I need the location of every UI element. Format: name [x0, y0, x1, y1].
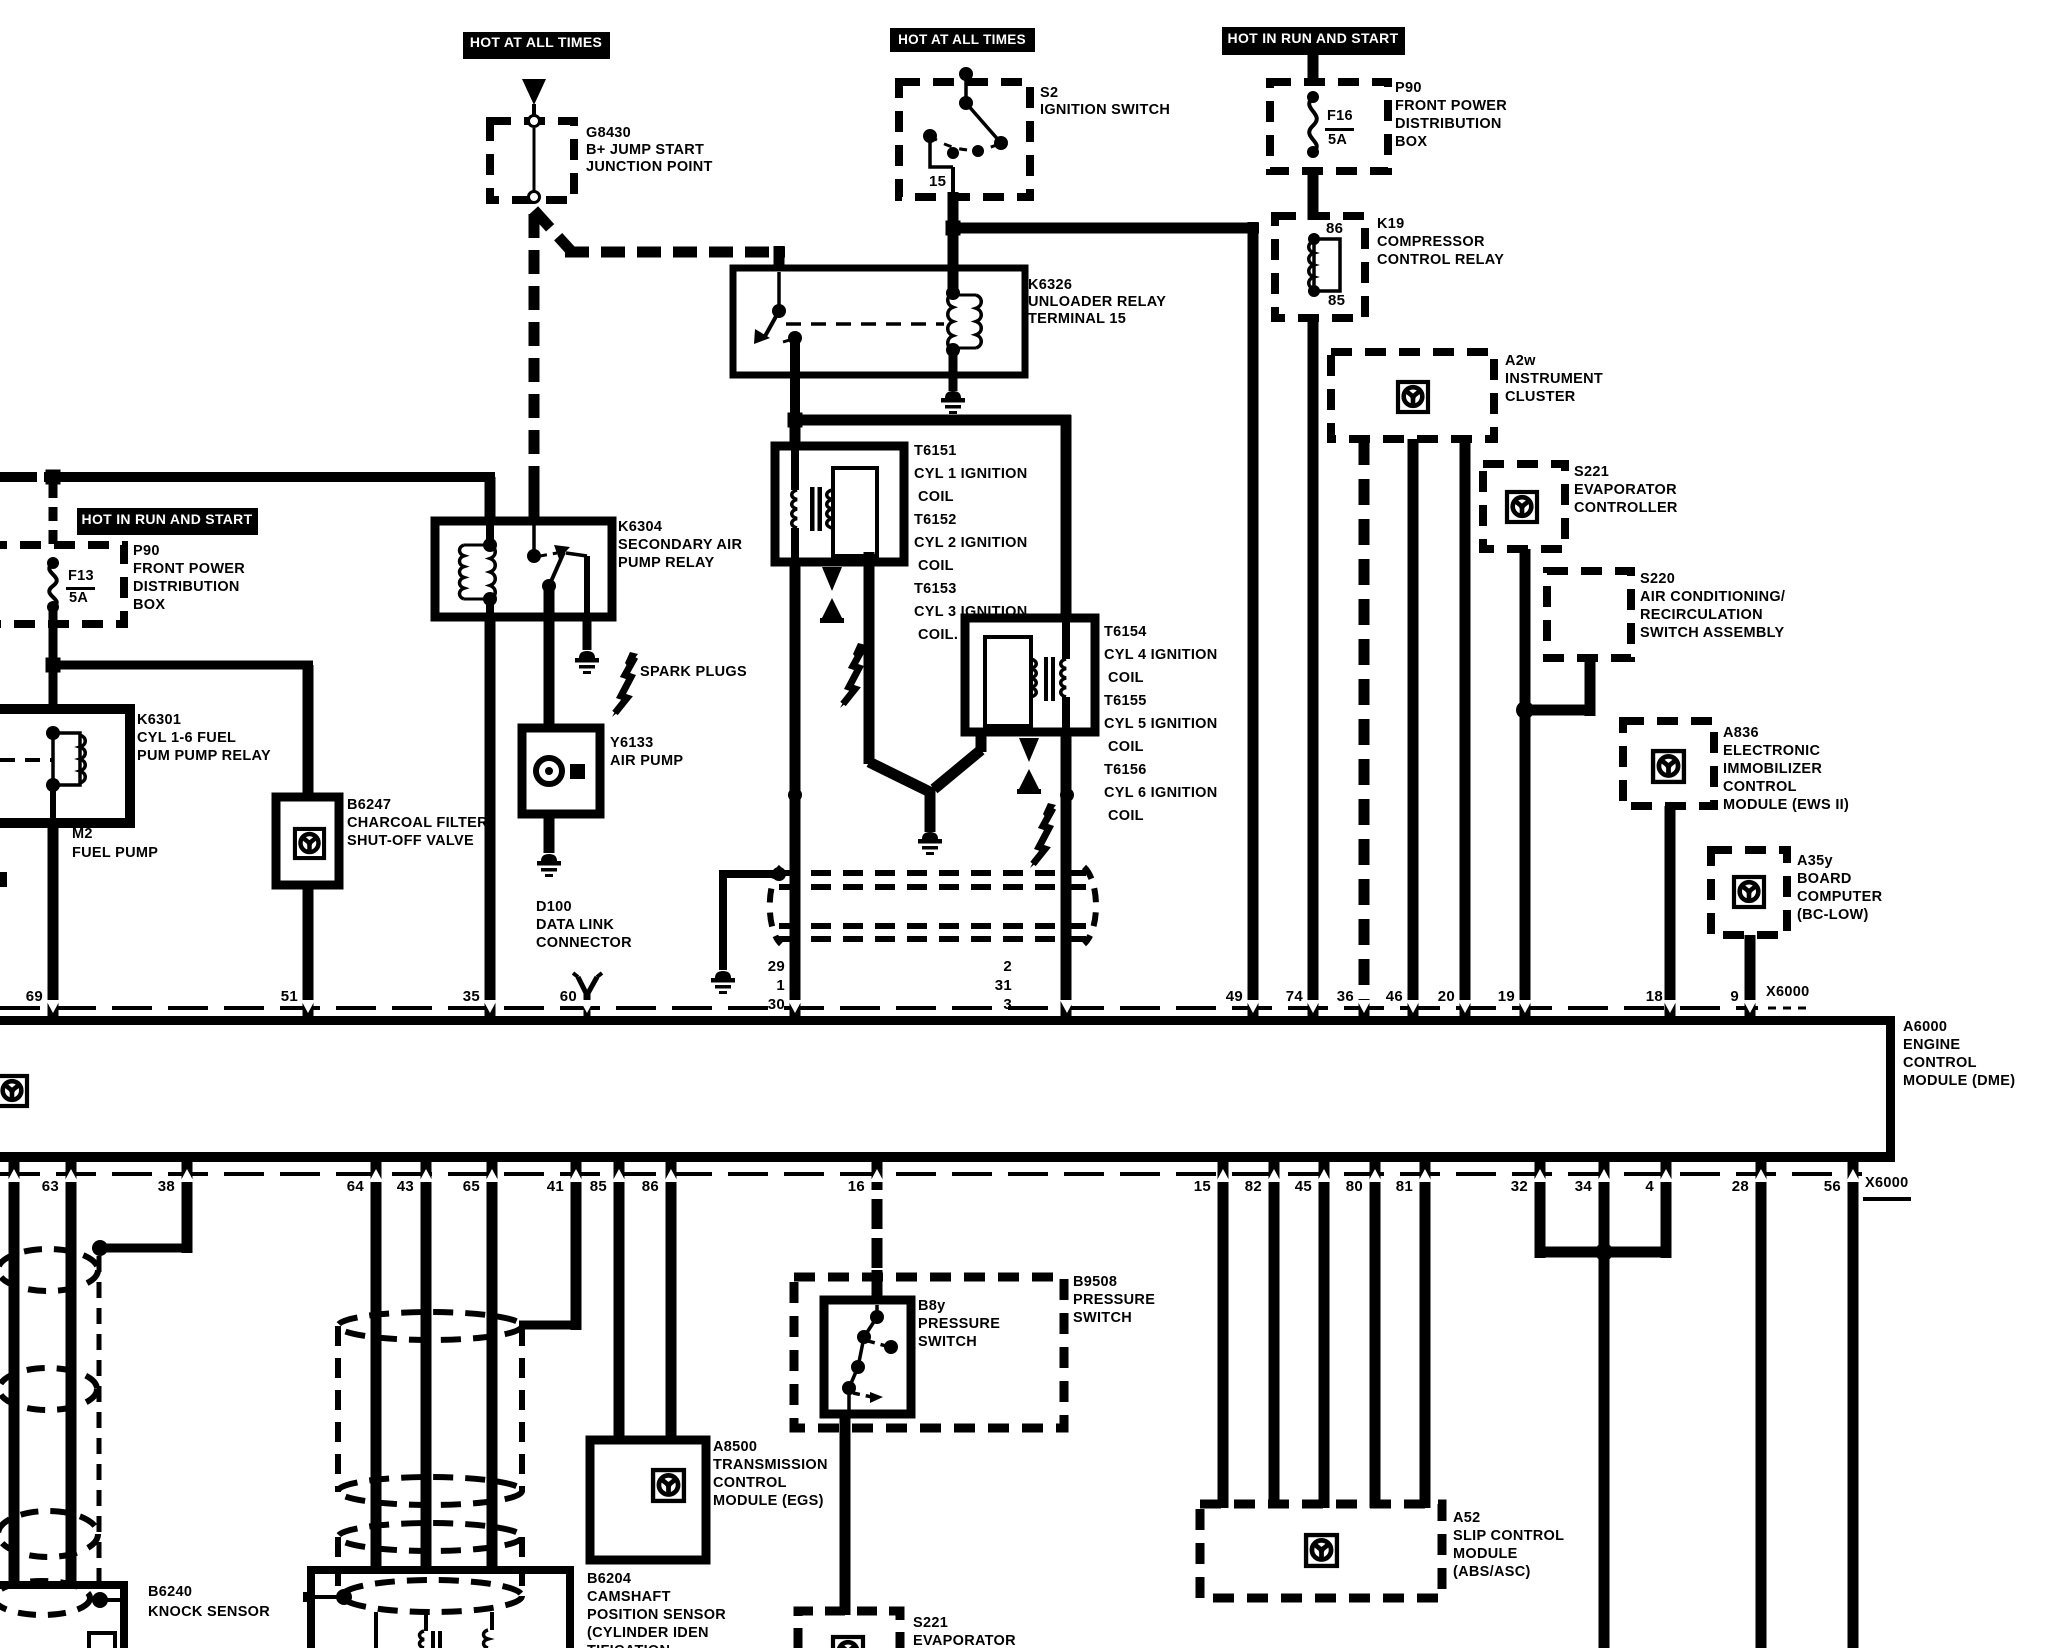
- svg-text:B9508: B9508: [1073, 1274, 1117, 1290]
- svg-text:SPARK PLUGS: SPARK PLUGS: [640, 664, 747, 680]
- svg-text:K6304: K6304: [618, 519, 662, 535]
- svg-text:ELECTRONIC: ELECTRONIC: [1723, 743, 1820, 759]
- svg-text:MODULE (EWS II): MODULE (EWS II): [1723, 797, 1849, 813]
- svg-text:31: 31: [995, 977, 1012, 994]
- svg-text:82: 82: [1245, 1178, 1262, 1195]
- svg-text:PUMP RELAY: PUMP RELAY: [618, 555, 714, 571]
- svg-text:HOT IN RUN AND START: HOT IN RUN AND START: [1228, 30, 1399, 46]
- svg-text:S220: S220: [1640, 571, 1675, 587]
- svg-text:(CYLINDER IDEN: (CYLINDER IDEN: [587, 1625, 709, 1641]
- svg-text:SECONDARY AIR: SECONDARY AIR: [618, 537, 742, 553]
- svg-text:16: 16: [848, 1178, 865, 1195]
- svg-text:CONTROLLER: CONTROLLER: [1574, 500, 1678, 516]
- svg-text:34: 34: [1575, 1178, 1593, 1195]
- svg-text:CONTROL: CONTROL: [1723, 779, 1797, 795]
- svg-text:M2: M2: [72, 826, 93, 842]
- svg-text:29: 29: [768, 958, 785, 975]
- svg-text:COMPRESSOR: COMPRESSOR: [1377, 234, 1485, 250]
- svg-text:COIL: COIL: [918, 558, 954, 574]
- svg-text:S221: S221: [1574, 464, 1609, 480]
- svg-text:ENGINE: ENGINE: [1903, 1037, 1960, 1053]
- svg-text:B+ JUMP START: B+ JUMP START: [586, 142, 704, 158]
- svg-text:K6301: K6301: [137, 712, 181, 728]
- svg-text:DATA LINK: DATA LINK: [536, 917, 614, 933]
- svg-text:A8500: A8500: [713, 1439, 757, 1455]
- svg-text:B6240: B6240: [148, 1584, 192, 1600]
- svg-text:TIFICATION: TIFICATION: [587, 1643, 670, 1648]
- svg-text:B6247: B6247: [347, 797, 391, 813]
- svg-text:AIR CONDITIONING/: AIR CONDITIONING/: [1640, 589, 1785, 605]
- svg-text:IMMOBILIZER: IMMOBILIZER: [1723, 761, 1822, 777]
- svg-text:CONTROL: CONTROL: [1903, 1055, 1977, 1071]
- svg-text:JUNCTION POINT: JUNCTION POINT: [586, 159, 713, 175]
- svg-text:IGNITION SWITCH: IGNITION SWITCH: [1040, 102, 1170, 118]
- svg-text:DISTRIBUTION: DISTRIBUTION: [1395, 116, 1502, 132]
- svg-text:COIL: COIL: [1108, 808, 1144, 824]
- svg-text:CYL 1-6 FUEL: CYL 1-6 FUEL: [137, 730, 236, 746]
- svg-text:KNOCK SENSOR: KNOCK SENSOR: [148, 1604, 270, 1620]
- svg-text:32: 32: [1511, 1178, 1528, 1195]
- svg-text:63: 63: [42, 1178, 59, 1195]
- svg-text:60: 60: [560, 988, 577, 1005]
- svg-text:CONTROL RELAY: CONTROL RELAY: [1377, 252, 1504, 268]
- svg-text:2: 2: [1003, 958, 1012, 975]
- svg-text:MODULE (EGS): MODULE (EGS): [713, 1493, 824, 1509]
- svg-text:4: 4: [1645, 1178, 1654, 1195]
- svg-text:51: 51: [281, 988, 298, 1005]
- svg-text:15: 15: [1194, 1178, 1211, 1195]
- svg-text:P90: P90: [1395, 80, 1422, 96]
- svg-text:FRONT POWER: FRONT POWER: [133, 561, 245, 577]
- svg-text:CYL 2 IGNITION: CYL 2 IGNITION: [914, 535, 1028, 551]
- svg-text:COIL: COIL: [918, 489, 954, 505]
- svg-text:A836: A836: [1723, 725, 1759, 741]
- svg-text:CONNECTOR: CONNECTOR: [536, 935, 632, 951]
- svg-text:HOT AT ALL TIMES: HOT AT ALL TIMES: [898, 32, 1026, 47]
- svg-text:45: 45: [1295, 1178, 1312, 1195]
- svg-text:30: 30: [768, 996, 785, 1013]
- svg-text:5A: 5A: [1328, 132, 1347, 148]
- svg-text:EVAPORATOR: EVAPORATOR: [1574, 482, 1677, 498]
- svg-text:A6000: A6000: [1903, 1019, 1947, 1035]
- svg-text:CLUSTER: CLUSTER: [1505, 389, 1576, 405]
- svg-text:HOT AT ALL TIMES: HOT AT ALL TIMES: [470, 34, 602, 50]
- svg-text:F16: F16: [1327, 108, 1353, 124]
- svg-text:3: 3: [1003, 996, 1012, 1013]
- svg-text:COIL: COIL: [1108, 670, 1144, 686]
- svg-text:K19: K19: [1377, 216, 1405, 232]
- svg-text:1: 1: [776, 977, 785, 994]
- svg-text:64: 64: [347, 1178, 365, 1195]
- svg-text:FRONT POWER: FRONT POWER: [1395, 98, 1507, 114]
- svg-text:(ABS/ASC): (ABS/ASC): [1453, 1564, 1531, 1580]
- svg-text:5A: 5A: [69, 590, 88, 606]
- svg-text:CYL 1 IGNITION: CYL 1 IGNITION: [914, 466, 1028, 482]
- svg-text:85: 85: [590, 1178, 607, 1195]
- svg-text:SHUT-OFF VALVE: SHUT-OFF VALVE: [347, 833, 474, 849]
- svg-text:86: 86: [1326, 220, 1343, 237]
- svg-text:CYL 5 IGNITION: CYL 5 IGNITION: [1104, 716, 1218, 732]
- svg-text:PRESSURE: PRESSURE: [918, 1316, 1000, 1332]
- svg-text:43: 43: [397, 1178, 414, 1195]
- svg-text:COIL: COIL: [1108, 739, 1144, 755]
- svg-text:9: 9: [1730, 988, 1739, 1005]
- svg-text:65: 65: [463, 1178, 480, 1195]
- svg-text:S221: S221: [913, 1615, 948, 1631]
- svg-text:FUEL PUMP: FUEL PUMP: [72, 845, 158, 861]
- svg-text:A2w: A2w: [1505, 353, 1536, 369]
- svg-text:35: 35: [463, 988, 480, 1005]
- svg-text:81: 81: [1396, 1178, 1413, 1195]
- svg-text:A52: A52: [1453, 1510, 1481, 1526]
- svg-text:T6155: T6155: [1104, 693, 1147, 709]
- svg-text:AIR PUMP: AIR PUMP: [610, 753, 683, 769]
- svg-text:19: 19: [1498, 988, 1515, 1005]
- svg-text:SWITCH: SWITCH: [1073, 1310, 1132, 1326]
- svg-text:B8y: B8y: [918, 1298, 946, 1314]
- svg-text:BOX: BOX: [133, 597, 165, 613]
- svg-text:18: 18: [1646, 988, 1663, 1005]
- svg-text:COIL.: COIL.: [918, 627, 958, 643]
- svg-text:49: 49: [1226, 988, 1243, 1005]
- svg-text:T6152: T6152: [914, 512, 957, 528]
- svg-text:CYL 6 IGNITION: CYL 6 IGNITION: [1104, 785, 1218, 801]
- svg-text:41: 41: [547, 1178, 564, 1195]
- svg-text:PUM PUMP RELAY: PUM PUMP RELAY: [137, 748, 271, 764]
- svg-text:A35y: A35y: [1797, 853, 1833, 869]
- svg-text:28: 28: [1732, 1178, 1749, 1195]
- svg-text:X6000: X6000: [1766, 984, 1809, 1000]
- svg-text:69: 69: [26, 988, 43, 1005]
- svg-text:MODULE (DME): MODULE (DME): [1903, 1073, 2015, 1089]
- svg-text:P90: P90: [133, 543, 160, 559]
- svg-text:B6204: B6204: [587, 1571, 631, 1587]
- svg-text:COMPUTER: COMPUTER: [1797, 889, 1883, 905]
- svg-text:UNLOADER RELAY: UNLOADER RELAY: [1028, 294, 1166, 310]
- svg-text:CHARCOAL FILTER: CHARCOAL FILTER: [347, 815, 488, 831]
- svg-text:BOARD: BOARD: [1797, 871, 1852, 887]
- svg-text:F13: F13: [68, 568, 94, 584]
- svg-text:SWITCH ASSEMBLY: SWITCH ASSEMBLY: [1640, 625, 1784, 641]
- svg-text:RECIRCULATION: RECIRCULATION: [1640, 607, 1763, 623]
- svg-text:S2: S2: [1040, 85, 1058, 101]
- svg-text:D100: D100: [536, 899, 572, 915]
- svg-text:T6156: T6156: [1104, 762, 1147, 778]
- svg-text:CAMSHAFT: CAMSHAFT: [587, 1589, 671, 1605]
- svg-text:(BC-LOW): (BC-LOW): [1797, 907, 1869, 923]
- svg-text:EVAPORATOR: EVAPORATOR: [913, 1633, 1016, 1648]
- svg-text:K6326: K6326: [1028, 277, 1072, 293]
- svg-text:20: 20: [1438, 988, 1455, 1005]
- svg-text:INSTRUMENT: INSTRUMENT: [1505, 371, 1603, 387]
- svg-text:86: 86: [642, 1178, 659, 1195]
- svg-text:38: 38: [158, 1178, 175, 1195]
- svg-text:CYL 4 IGNITION: CYL 4 IGNITION: [1104, 647, 1218, 663]
- svg-text:85: 85: [1328, 292, 1345, 309]
- svg-text:56: 56: [1824, 1178, 1841, 1195]
- svg-text:PRESSURE: PRESSURE: [1073, 1292, 1155, 1308]
- svg-text:MODULE: MODULE: [1453, 1546, 1518, 1562]
- svg-text:BOX: BOX: [1395, 134, 1427, 150]
- svg-text:POSITION SENSOR: POSITION SENSOR: [587, 1607, 726, 1623]
- svg-text:36: 36: [1337, 988, 1354, 1005]
- svg-text:TERMINAL 15: TERMINAL 15: [1028, 311, 1126, 327]
- svg-text:T6154: T6154: [1104, 624, 1147, 640]
- svg-text:HOT IN RUN AND START: HOT IN RUN AND START: [82, 511, 253, 527]
- svg-text:T6151: T6151: [914, 443, 957, 459]
- svg-text:80: 80: [1346, 1178, 1363, 1195]
- svg-text:74: 74: [1286, 988, 1304, 1005]
- svg-text:TRANSMISSION: TRANSMISSION: [713, 1457, 828, 1473]
- svg-text:15: 15: [929, 173, 946, 190]
- svg-text:X6000: X6000: [1865, 1175, 1908, 1191]
- svg-text:Y6133: Y6133: [610, 735, 653, 751]
- svg-text:G8430: G8430: [586, 125, 631, 141]
- svg-text:CONTROL: CONTROL: [713, 1475, 787, 1491]
- svg-text:DISTRIBUTION: DISTRIBUTION: [133, 579, 240, 595]
- svg-text:T6153: T6153: [914, 581, 957, 597]
- svg-text:SWITCH: SWITCH: [918, 1334, 977, 1350]
- svg-text:46: 46: [1386, 988, 1403, 1005]
- svg-text:SLIP CONTROL: SLIP CONTROL: [1453, 1528, 1564, 1544]
